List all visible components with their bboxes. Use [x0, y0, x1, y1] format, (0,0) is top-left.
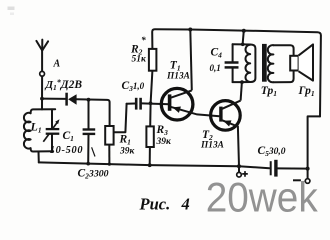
speaker Gp1 symbol: [290, 56, 298, 71]
wire R3 bottom lead: [149, 147, 151, 165]
svg-text:С31,0: С31,0: [122, 80, 145, 93]
junction C2 bottom at bottom rail: [86, 162, 90, 166]
wire right rail jog: [308, 116, 320, 168]
plus sign: [242, 171, 248, 177]
wire bottom rail right of C5: [278, 167, 308, 169]
transformer Tp1 primary: [242, 44, 255, 82]
diode D1: [67, 93, 77, 106]
wire diode cathode to R1 top: [77, 99, 110, 126]
svg-text:39к: 39к: [156, 137, 173, 147]
svg-text:4: 4: [181, 195, 190, 214]
resistor R3: [146, 126, 153, 147]
wire bottom rail left of C5: [39, 162, 269, 168]
svg-text:20wek: 20wek: [206, 173, 319, 218]
junction T1 collector at top rail: [188, 28, 192, 32]
minus sign: [293, 179, 301, 181]
svg-text:П13А: П13А: [166, 71, 190, 81]
capacitor C4 plates: [225, 61, 239, 64]
junction C4 / primary bottom / T2 collector: [240, 80, 244, 84]
svg-text:Д1*Д2В: Д1*Д2В: [45, 78, 83, 92]
wire C4 bottom lead: [232, 68, 234, 82]
wire top rail: [152, 29, 321, 116]
svg-text:*: *: [141, 35, 146, 46]
svg-text:10-500: 10-500: [50, 145, 83, 156]
svg-text:0,1: 0,1: [210, 63, 221, 73]
speckle top-left: [8, 7, 15, 11]
svg-text:П13А: П13А: [200, 141, 224, 151]
junction R1 bottom at bottom rail: [108, 163, 111, 166]
svg-text:С530,0: С530,0: [258, 145, 286, 158]
wire top rail drop to transformer: [243, 31, 244, 45]
transistor T1: [161, 30, 219, 120]
wire plus terminal stub: [238, 166, 240, 172]
wire C4 bottom connector: [233, 81, 242, 83]
junction T2 emitter / plus terminal at bottom rail: [237, 164, 241, 168]
junction C4 / primary top: [241, 43, 245, 47]
wire C3 left lead: [127, 103, 135, 105]
wire C1 bottom lead: [51, 134, 53, 151]
svg-text:С23300: С23300: [78, 168, 109, 181]
wire R2 bottom to R3 top: [150, 71, 152, 127]
junction R2-R3 divider / T1 base wire: [149, 101, 153, 105]
transformer core: [262, 44, 267, 82]
junction transformer branch at top rail: [242, 29, 246, 33]
wire C1 top lead: [51, 109, 53, 128]
wire C2 top lead: [88, 100, 90, 130]
battery terminal + circle: [237, 172, 242, 177]
wire C2 bottom lead: [87, 134, 89, 163]
inductor L1: [24, 113, 31, 149]
wire C3 to T1 base: [142, 102, 170, 105]
wire tank top: [31, 109, 56, 113]
svg-text:R3: R3: [156, 124, 169, 137]
junction C2 top / diode wire: [87, 98, 91, 102]
svg-text:R1: R1: [119, 134, 131, 147]
junction R3 bottom at bottom rail: [148, 163, 152, 167]
capacitor C2 plates: [83, 128, 96, 130]
wire C4 top lead: [232, 44, 234, 61]
svg-text:С4: С4: [211, 47, 223, 60]
wire tank jog to rail: [38, 152, 40, 163]
node A terminal circle: [40, 71, 45, 76]
wire tank bottom: [31, 148, 54, 151]
svg-text:L1: L1: [30, 120, 42, 135]
resistor R1: [105, 126, 113, 145]
junction minus terminal at bottom rail: [306, 167, 310, 171]
svg-text:А: А: [53, 59, 61, 70]
junction antenna / diode wire: [40, 97, 44, 101]
svg-text:С1: С1: [63, 130, 74, 143]
capacitor C1 arrow: [43, 133, 49, 142]
wire minus terminal stub: [307, 169, 309, 179]
wire antenna junction to diode anode: [42, 98, 67, 100]
antenna: [36, 40, 48, 72]
transformer Tp1 secondary: [273, 45, 293, 82]
capacitor C3 jog to R1: [114, 104, 127, 133]
svg-text:51к: 51к: [132, 55, 148, 65]
capacitor C3 plates: [135, 98, 138, 110]
wire antenna to tank: [41, 76, 43, 109]
capacitor C5 plates: [270, 161, 272, 175]
svg-text:Рис.: Рис.: [139, 195, 171, 214]
resistor R2: [149, 49, 157, 71]
wire C4 top connector: [233, 43, 243, 45]
capacitor C1 plates: [46, 128, 60, 130]
leader line C2 label: [92, 147, 95, 156]
svg-text:39к: 39к: [119, 146, 136, 156]
battery terminal - circle: [305, 179, 310, 184]
transistor T2: [211, 82, 242, 166]
svg-text:Гр1: Гр1: [298, 85, 315, 98]
svg-text:Тр1: Тр1: [261, 85, 277, 98]
